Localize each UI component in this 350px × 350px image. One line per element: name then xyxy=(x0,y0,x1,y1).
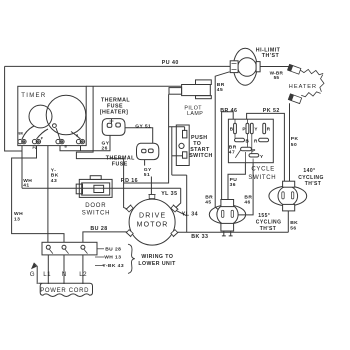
svg-text:TH'ST: TH'ST xyxy=(262,53,280,59)
svg-text:G: G xyxy=(30,271,35,278)
svg-text:BK: BK xyxy=(290,220,298,226)
svg-text:PU: PU xyxy=(33,146,38,150)
svg-text:P: P xyxy=(242,127,245,132)
svg-text:LAMP: LAMP xyxy=(187,111,203,117)
svg-text:CYCLING: CYCLING xyxy=(256,220,282,226)
svg-text:47: 47 xyxy=(229,149,235,155)
svg-text:BU 28: BU 28 xyxy=(105,247,121,253)
svg-text:BR 46: BR 46 xyxy=(220,108,237,114)
svg-text:140°: 140° xyxy=(303,168,315,174)
svg-text:PK 52: PK 52 xyxy=(263,108,280,114)
svg-text:TH'ST: TH'ST xyxy=(305,181,322,187)
svg-text:46: 46 xyxy=(244,199,250,205)
svg-text:HEATER: HEATER xyxy=(289,84,317,90)
svg-text:155°: 155° xyxy=(258,213,270,219)
svg-text:WIRING TO: WIRING TO xyxy=(141,254,173,260)
svg-text:36: 36 xyxy=(230,182,236,188)
svg-text:CYCLE: CYCLE xyxy=(251,167,275,173)
svg-text:BK 33: BK 33 xyxy=(191,234,208,240)
svg-text:43: 43 xyxy=(51,178,57,184)
svg-text:FUSE: FUSE xyxy=(107,103,123,109)
svg-text:N: N xyxy=(62,271,67,278)
svg-text:41: 41 xyxy=(23,183,29,189)
svg-text:L2: L2 xyxy=(79,271,87,278)
svg-text:TIMER: TIMER xyxy=(21,93,46,99)
svg-text:26: 26 xyxy=(102,145,108,151)
svg-text:WH: WH xyxy=(14,211,23,217)
svg-text:SWITCH: SWITCH xyxy=(248,175,276,181)
svg-text:SWITCH: SWITCH xyxy=(189,153,213,159)
svg-text:56: 56 xyxy=(290,225,296,231)
svg-text:LOWER UNIT: LOWER UNIT xyxy=(138,261,176,267)
svg-text:Y: Y xyxy=(254,127,257,132)
svg-text:BK: BK xyxy=(19,132,24,136)
svg-text:BU 28: BU 28 xyxy=(90,226,107,232)
svg-text:45: 45 xyxy=(205,199,211,205)
svg-text:DRIVE: DRIVE xyxy=(139,213,166,220)
svg-text:DOOR: DOOR xyxy=(85,203,106,209)
svg-text:RD 16: RD 16 xyxy=(121,178,138,184)
svg-text:GY 51: GY 51 xyxy=(135,124,151,130)
svg-text:45: 45 xyxy=(217,87,223,93)
svg-text:FUSE: FUSE xyxy=(112,161,128,167)
svg-text:Y-: Y- xyxy=(51,167,57,173)
svg-text:WH 13: WH 13 xyxy=(104,255,121,261)
svg-text:MOTOR: MOTOR xyxy=(137,222,169,229)
svg-text:YL 34: YL 34 xyxy=(182,212,198,218)
svg-text:51: 51 xyxy=(144,172,150,178)
svg-text:[HEATER]: [HEATER] xyxy=(100,109,129,115)
svg-text:L1: L1 xyxy=(43,271,51,278)
svg-text:13: 13 xyxy=(14,216,20,222)
svg-text:SWITCH: SWITCH xyxy=(82,210,110,216)
svg-text:PU 40: PU 40 xyxy=(162,60,179,66)
svg-text:Y-BK 43: Y-BK 43 xyxy=(102,263,124,269)
svg-text:TH'ST: TH'ST xyxy=(260,226,277,232)
svg-text:Y: Y xyxy=(260,154,263,159)
svg-text:BK: BK xyxy=(51,173,59,179)
svg-text:POWER CORD: POWER CORD xyxy=(40,288,89,294)
svg-text:P: P xyxy=(252,148,255,153)
svg-text:50: 50 xyxy=(291,142,297,148)
svg-text:PK: PK xyxy=(291,136,299,142)
svg-text:YL 35: YL 35 xyxy=(161,191,177,197)
svg-text:55: 55 xyxy=(274,75,280,80)
